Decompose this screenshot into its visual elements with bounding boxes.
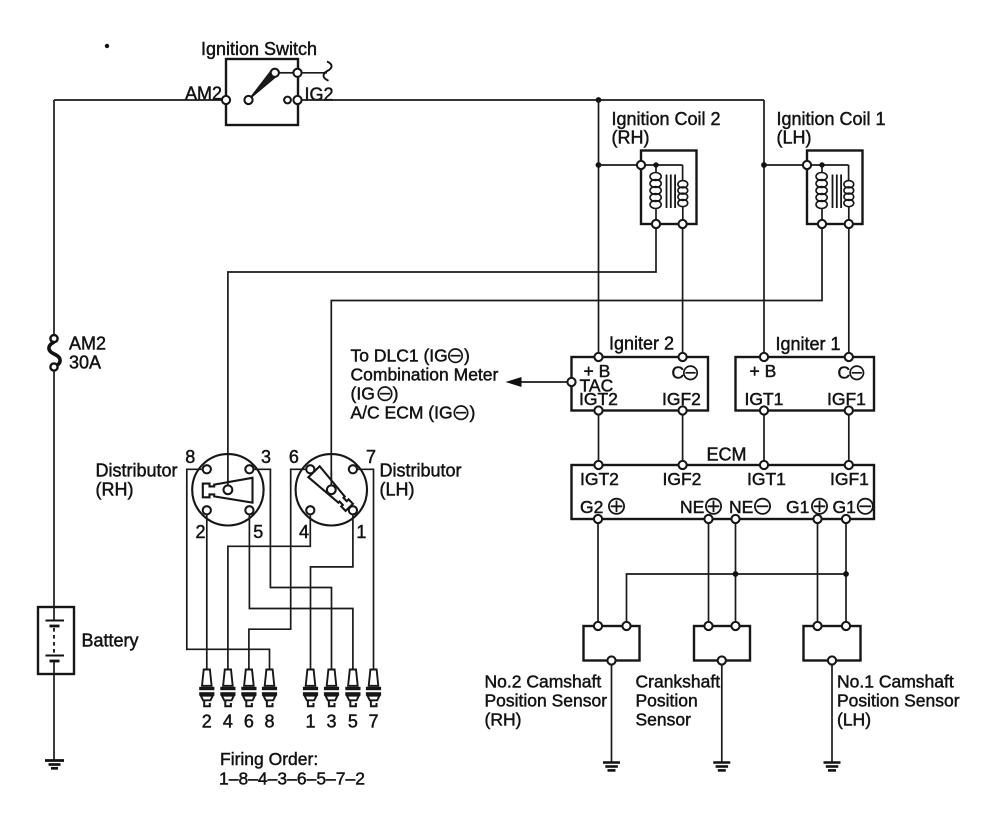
wire fuse to battery bbox=[53, 371, 55, 607]
svg-text:Firing Order:: Firing Order: bbox=[220, 749, 318, 769]
pin terminal 5 bbox=[245, 506, 253, 514]
ignition coil 1 (LH) bbox=[803, 151, 863, 229]
svg-text:4: 4 bbox=[299, 522, 309, 542]
wire lever contact to upper terminal bbox=[279, 72, 294, 74]
svg-text:(RH): (RH) bbox=[485, 710, 522, 730]
pin terminal 2 bbox=[203, 506, 211, 514]
svg-text:No.2 Camshaft: No.2 Camshaft bbox=[485, 672, 602, 692]
svg-text:Ignition Switch: Ignition Switch bbox=[201, 39, 317, 59]
svg-text:2: 2 bbox=[195, 522, 205, 542]
pin coil2 secondary out bbox=[679, 220, 687, 228]
svg-text:3: 3 bbox=[261, 447, 271, 467]
svg-text:IGF2: IGF2 bbox=[663, 469, 702, 489]
ground (No.2 camshaft sensor) bbox=[603, 763, 620, 771]
svg-text:7: 7 bbox=[368, 712, 378, 732]
wire rotor feed visible segment bbox=[330, 471, 332, 486]
svg-text:Distributor: Distributor bbox=[380, 461, 462, 481]
svg-text:G1: G1 bbox=[786, 497, 809, 517]
svg-text:NE: NE bbox=[729, 497, 753, 517]
pin ECM IGF1 bbox=[845, 461, 853, 469]
pin terminal 3 bbox=[245, 465, 253, 473]
svg-text:C: C bbox=[838, 363, 851, 383]
spark plug 7 bbox=[366, 670, 381, 707]
wire IGT1 igniter to ECM bbox=[763, 415, 765, 461]
svg-text:To DLC1 (IG: To DLC1 (IG bbox=[351, 346, 448, 366]
svg-text:Igniter 2: Igniter 2 bbox=[609, 334, 674, 354]
svg-text:1: 1 bbox=[305, 712, 315, 732]
svg-text:C: C bbox=[672, 363, 685, 383]
pin igniter1 IGT1 bbox=[760, 406, 768, 414]
wire terminal 6 to plug 6 bbox=[249, 469, 306, 668]
wire coil1 primary to igniter 1 C bbox=[848, 228, 850, 353]
fuse AM2 30A bbox=[49, 335, 60, 371]
pin ECM IGF2 bbox=[679, 461, 687, 469]
svg-text:Position Sensor: Position Sensor bbox=[837, 691, 960, 711]
svg-text:ECM: ECM bbox=[707, 445, 747, 465]
pin igniter2 +B bbox=[594, 353, 602, 361]
switch pivot bbox=[244, 96, 252, 104]
svg-text:AM2: AM2 bbox=[185, 84, 222, 104]
pin rotor center bbox=[224, 485, 233, 494]
svg-text:): ) bbox=[393, 384, 399, 404]
svg-text:2: 2 bbox=[202, 712, 212, 732]
junction NE- on bus bbox=[733, 571, 739, 577]
svg-text:30A: 30A bbox=[69, 353, 101, 373]
pin coil1 primary out bbox=[818, 220, 826, 228]
ignition coil 2 (RH) bbox=[637, 151, 697, 229]
wire IG2 main feed to coils/igniters bbox=[302, 99, 764, 101]
svg-text:Sensor: Sensor bbox=[636, 710, 692, 730]
junction IG2/igniter2 branch bbox=[596, 97, 602, 103]
No.2 camshaft position sensor (RH) bbox=[584, 622, 640, 665]
pin upper terminal bbox=[293, 69, 301, 77]
pin igniter1 IGF1 bbox=[845, 406, 853, 414]
pin ECM G1+ bbox=[813, 515, 821, 523]
svg-text:IG2: IG2 bbox=[305, 85, 334, 105]
rotor LH bbox=[308, 466, 354, 513]
svg-text:IGT1: IGT1 bbox=[745, 389, 784, 409]
pin coil1 +B terminal bbox=[803, 161, 811, 169]
pin coil2 +B terminal bbox=[637, 161, 645, 169]
igniter 1 bbox=[736, 353, 875, 415]
spark plug 8 bbox=[262, 670, 277, 707]
pin igniter2 IGF2 bbox=[679, 406, 687, 414]
ground (battery) bbox=[45, 761, 64, 769]
svg-text:(LH): (LH) bbox=[380, 480, 415, 500]
wire G1+ to No.1 camshaft sensor bbox=[817, 523, 819, 622]
svg-text:G1: G1 bbox=[833, 497, 856, 517]
ECM bbox=[572, 461, 875, 523]
svg-text:Igniter 1: Igniter 1 bbox=[776, 334, 841, 354]
pin terminal 6 bbox=[306, 465, 314, 473]
spark plug 3 bbox=[324, 670, 339, 707]
wire coil2 secondary to distributor RH rotor bbox=[228, 228, 656, 485]
junction coil 1 branch bbox=[761, 162, 767, 168]
pin ECM IGT1 bbox=[760, 461, 768, 469]
svg-text:G2: G2 bbox=[580, 497, 603, 517]
pin coil1 secondary out bbox=[845, 220, 853, 228]
pin igniter2 TAC bbox=[567, 378, 575, 386]
svg-text:Position: Position bbox=[636, 691, 698, 711]
battery bbox=[38, 607, 74, 674]
rotor RH bbox=[203, 478, 253, 503]
pin rotor center bbox=[327, 485, 336, 494]
svg-text:8: 8 bbox=[264, 712, 274, 732]
wire terminal 5 to plug 5 bbox=[249, 514, 353, 668]
wire branch to coil 2 terminal bbox=[599, 164, 638, 166]
wire battery rail vertical down to fuse bbox=[53, 100, 55, 335]
svg-text:): ) bbox=[470, 403, 476, 423]
svg-text:IGF2: IGF2 bbox=[662, 389, 701, 409]
wire upper terminal stub to other circuit bbox=[302, 72, 327, 74]
distributor LH bbox=[296, 454, 367, 525]
arrowhead to DLC1 bbox=[506, 377, 522, 387]
wire battery to ground bbox=[53, 674, 55, 760]
wire IGF1 igniter to ECM bbox=[848, 415, 850, 461]
svg-text:3: 3 bbox=[326, 712, 336, 732]
svg-text:7: 7 bbox=[366, 447, 376, 467]
svg-text:5: 5 bbox=[253, 522, 263, 542]
svg-text:IGF1: IGF1 bbox=[830, 469, 869, 489]
wire G2+ to No.2 camshaft sensor bbox=[597, 523, 599, 622]
pin AM2 terminal bbox=[222, 96, 230, 104]
pin ECM NE- bbox=[731, 515, 739, 523]
wire rotor feed visible segment bbox=[227, 481, 229, 487]
stray print dot bbox=[105, 44, 109, 48]
svg-text:AM2: AM2 bbox=[69, 334, 106, 354]
svg-text:No.1 Camshaft: No.1 Camshaft bbox=[837, 672, 954, 692]
wire No.1 sensor to ground bbox=[831, 665, 833, 762]
pin igniter2 C bbox=[679, 353, 687, 361]
svg-text:(LH): (LH) bbox=[837, 710, 871, 730]
wire igniter 2 +B drop bbox=[598, 100, 600, 353]
svg-text:8: 8 bbox=[185, 447, 195, 467]
junction coil 2 branch bbox=[596, 162, 602, 168]
svg-text:IGF1: IGF1 bbox=[827, 389, 866, 409]
wire NE+ to crankshaft sensor bbox=[708, 523, 710, 622]
svg-text:Battery: Battery bbox=[82, 631, 139, 651]
pin igniter1 +B bbox=[760, 353, 768, 361]
pin ECM IGT2 bbox=[594, 461, 602, 469]
wire terminal 4 to plug 4 bbox=[228, 514, 310, 668]
switch lever contact bbox=[271, 69, 279, 77]
pin igniter1 C bbox=[845, 353, 853, 361]
svg-text:(RH): (RH) bbox=[612, 128, 650, 148]
wire TAC to DLC1 arrow bbox=[520, 381, 567, 383]
pin terminal 7 bbox=[349, 465, 357, 473]
wire crankshaft sensor to ground bbox=[721, 665, 723, 762]
svg-text:IGT1: IGT1 bbox=[747, 469, 786, 489]
pin IG2 terminal bbox=[293, 96, 301, 104]
ground (No.1 camshaft sensor) bbox=[824, 763, 841, 771]
svg-text:Ignition Coil 2: Ignition Coil 2 bbox=[612, 109, 721, 129]
svg-text:6: 6 bbox=[244, 712, 254, 732]
spark plug 5 bbox=[345, 670, 360, 707]
svg-text:Combination Meter: Combination Meter bbox=[351, 365, 499, 385]
pin igniter2 IGT2 bbox=[594, 406, 602, 414]
spark plug 6 bbox=[241, 670, 256, 707]
svg-text:5: 5 bbox=[348, 712, 358, 732]
pin coil2 primary out bbox=[652, 220, 660, 228]
switch small contact bbox=[284, 97, 291, 104]
svg-text:IGT2: IGT2 bbox=[579, 389, 618, 409]
svg-text:Position Sensor: Position Sensor bbox=[485, 691, 608, 711]
wire coil2 primary to igniter 2 C bbox=[682, 228, 684, 353]
spark plug 1 bbox=[303, 670, 318, 707]
ignition switch bbox=[222, 59, 302, 125]
svg-text:1: 1 bbox=[356, 522, 366, 542]
pin ECM G2+ bbox=[594, 515, 602, 523]
svg-text:IGT2: IGT2 bbox=[580, 469, 619, 489]
ground (crankshaft sensor) bbox=[713, 763, 730, 771]
spark plug 2 bbox=[199, 670, 214, 707]
pin ECM NE+ bbox=[704, 515, 712, 523]
wire No.2 sensor to ground bbox=[611, 665, 613, 762]
wire NE- to crankshaft sensor bbox=[735, 523, 737, 622]
switch lever bbox=[250, 72, 276, 99]
svg-text:(RH): (RH) bbox=[96, 480, 134, 500]
svg-text:Distributor: Distributor bbox=[96, 461, 178, 481]
svg-text:): ) bbox=[464, 346, 470, 366]
wire igniter 1 +B drop bbox=[763, 100, 765, 353]
svg-text:Crankshaft: Crankshaft bbox=[636, 672, 721, 692]
svg-text:NE: NE bbox=[680, 497, 704, 517]
crankshaft position sensor bbox=[694, 622, 750, 665]
wire terminal 2 to plug 2 bbox=[206, 514, 208, 668]
wire IGF2 igniter to ECM bbox=[682, 415, 684, 461]
pin terminal 8 bbox=[203, 465, 211, 473]
wire terminal 1 to plug 1 bbox=[311, 514, 353, 668]
svg-text:Ignition Coil 1: Ignition Coil 1 bbox=[777, 109, 886, 129]
pin terminal 1 bbox=[349, 506, 357, 514]
wire terminal 3 to plug 3 bbox=[254, 469, 332, 668]
wire coil1 secondary to distributor LH rotor bbox=[331, 228, 822, 485]
svg-text:4: 4 bbox=[223, 712, 233, 732]
svg-text:6: 6 bbox=[289, 447, 299, 467]
pin ECM G1- bbox=[842, 515, 850, 523]
wire IGT2 igniter to ECM bbox=[598, 415, 600, 461]
spark plug 4 bbox=[220, 670, 235, 707]
wire G1- to No.1 camshaft sensor bbox=[845, 523, 847, 622]
svg-text:A/C ECM (IG: A/C ECM (IG bbox=[351, 403, 453, 423]
distributor RH bbox=[192, 454, 263, 525]
pin terminal 4 bbox=[306, 506, 314, 514]
break symbol (continuation squiggle) bbox=[323, 62, 331, 81]
wire branch to coil 1 terminal bbox=[764, 164, 803, 166]
wire terminal 7 to plug 7 bbox=[357, 469, 374, 668]
wire terminal 8 to plug 8 bbox=[187, 469, 270, 668]
No.1 camshaft position sensor (LH) bbox=[804, 622, 861, 665]
svg-text:(LH): (LH) bbox=[777, 128, 812, 148]
wire AM2 feed: battery rail top horizontal to ignition switch AM2 bbox=[54, 99, 222, 101]
igniter 2 bbox=[567, 353, 708, 415]
svg-text:(IG: (IG bbox=[351, 384, 375, 404]
svg-text:1–8–4–3–6–5–7–2: 1–8–4–3–6–5–7–2 bbox=[219, 769, 365, 789]
wire common sensor return bus bbox=[627, 574, 847, 622]
svg-text:+ B: + B bbox=[750, 361, 777, 381]
junction G1- on bus bbox=[843, 571, 849, 577]
